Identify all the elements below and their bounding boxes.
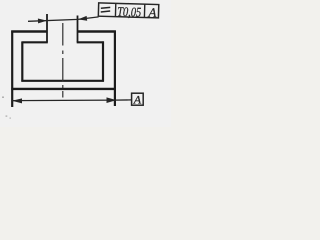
right shoulder of T-slot <box>77 41 104 43</box>
svg-text:A: A <box>133 93 142 107</box>
paper background <box>0 0 171 127</box>
part outline: right edge (extended down as extension line) <box>114 31 116 107</box>
centerline (dash-dot) <box>62 23 64 98</box>
part outline: top edge right segment <box>78 30 116 32</box>
svg-text:A: A <box>147 5 156 20</box>
top dimension right arrowhead (tip at right extension line, pointing left) <box>78 16 87 21</box>
part outline: bottom edge <box>11 88 116 90</box>
datum box <box>132 93 144 105</box>
FCF divider 2 <box>143 4 145 17</box>
bottom dimension left arrowhead (tip at left extension, pointing left) <box>12 98 22 103</box>
FCF divider 1 <box>114 3 116 16</box>
left shoulder of T-slot <box>22 41 48 43</box>
slot right wall / extension line <box>77 16 79 43</box>
slot left wall / extension line <box>46 14 48 42</box>
FCF outer frame <box>98 3 158 18</box>
cavity left wall <box>21 41 23 81</box>
datum leader line to datum box <box>115 99 132 101</box>
stray scan speckles <box>2 97 4 98</box>
cavity right wall <box>102 41 104 81</box>
parallelism symbol: two slanted parallel strokes <box>101 7 110 8</box>
feature control frame (slightly tilted) <box>98 3 159 20</box>
cavity bottom <box>21 80 104 82</box>
part outline: top edge left segment <box>11 30 47 32</box>
svg-text:T0,05: T0,05 <box>117 4 142 20</box>
part outline: left edge (extended down as extension line) <box>11 31 13 108</box>
top dimension line (slanted, runs into FCF) <box>28 17 99 21</box>
bottom dimension right arrowhead (tip at right extension, pointing right) <box>107 97 117 103</box>
bottom dimension line <box>12 99 115 102</box>
top dimension left arrowhead (tip at left extension line, pointing right) <box>38 19 47 24</box>
